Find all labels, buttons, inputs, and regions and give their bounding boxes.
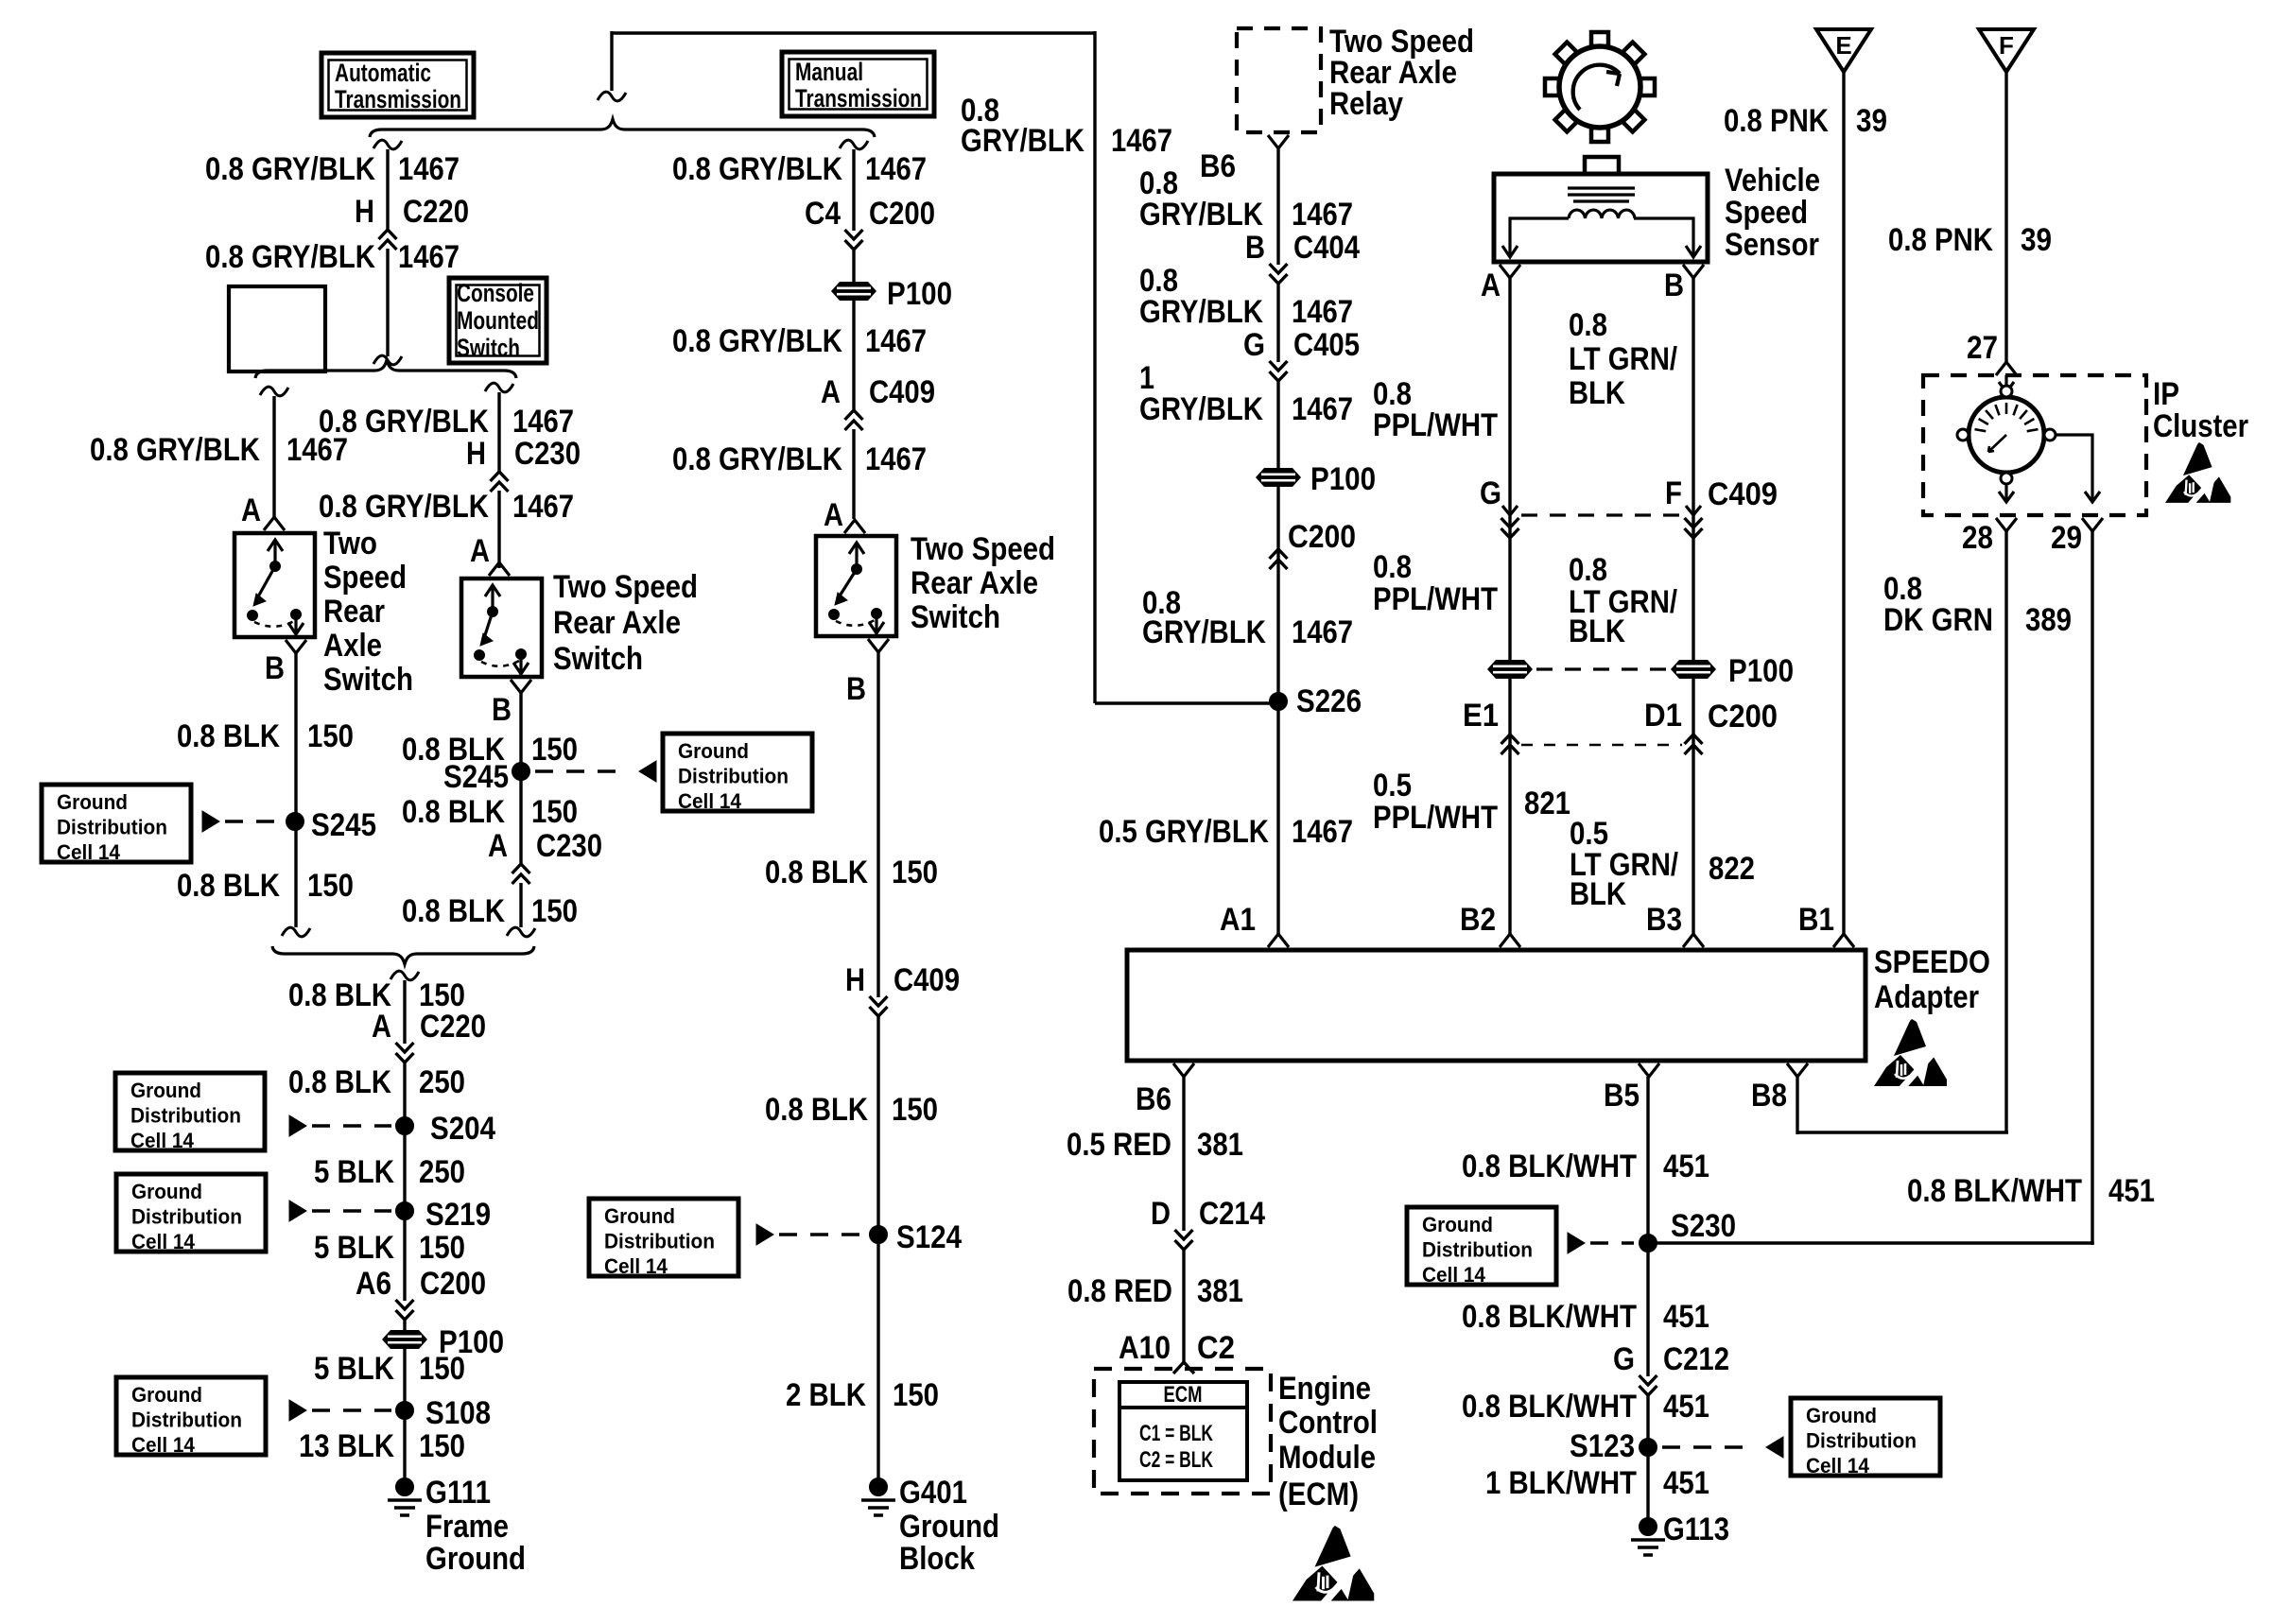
connector C214 pin D: [1151, 1196, 1265, 1250]
svg-text:Distribution: Distribution: [1806, 1429, 1917, 1453]
wire merged ground chain: [403, 980, 406, 1487]
svg-text:Ground: Ground: [131, 1383, 202, 1407]
svg-text:A: A: [488, 828, 508, 864]
connector C212 pin G: [1613, 1341, 1729, 1395]
svg-text:Console: Console: [457, 279, 534, 307]
wire from top rail into S226: [1095, 701, 1278, 704]
pin chevron into IP cluster 27: [1996, 362, 2017, 375]
svg-text:ECM: ECM: [1164, 1382, 1203, 1408]
svg-text:Cell 14: Cell 14: [1422, 1263, 1486, 1287]
label Two Speed Rear Axle Switch: [323, 526, 413, 698]
svg-text:C2: C2: [1197, 1330, 1235, 1366]
svg-text:451: 451: [1663, 1389, 1709, 1425]
ground G113: [1631, 1518, 1665, 1556]
svg-text:Distribution: Distribution: [130, 1104, 241, 1128]
svg-text:1467: 1467: [1292, 197, 1353, 233]
svg-text:G: G: [1480, 475, 1501, 511]
svg-text:Rear: Rear: [323, 594, 385, 630]
svg-text:13 BLK: 13 BLK: [299, 1428, 394, 1464]
svg-text:389: 389: [2025, 602, 2072, 638]
svg-text:150: 150: [531, 794, 578, 830]
svg-text:PPL/WHT: PPL/WHT: [1373, 581, 1498, 617]
svg-text:Speed: Speed: [323, 560, 407, 596]
pin chevron into speedo adapter A1: [1268, 934, 1289, 947]
ground distribution cell 14 box (S124) arrow: [756, 1224, 773, 1245]
connector C200 pin C4: [805, 196, 935, 250]
ground distribution cell 14 box (S204) dashed link: [312, 1124, 391, 1127]
ground distribution cell 14 box (S123): [1791, 1398, 1940, 1477]
svg-text:BLK: BLK: [1570, 876, 1626, 912]
splice S219: [396, 1202, 414, 1220]
label Two Speed Rear Axle Switch (console): [553, 569, 698, 677]
svg-text:Cell 14: Cell 14: [678, 789, 742, 813]
svg-text:Two Speed: Two Speed: [911, 531, 1055, 567]
svg-text:Control: Control: [1278, 1405, 1378, 1441]
svg-text:B6: B6: [1200, 148, 1236, 184]
svg-text:G: G: [1243, 327, 1265, 363]
svg-text:GRY/BLK: GRY/BLK: [961, 123, 1084, 159]
svg-text:F: F: [1665, 475, 1682, 511]
break squiggle bottom of switch1 wire: [282, 927, 310, 937]
svg-text:0.8 BLK: 0.8 BLK: [288, 1064, 391, 1100]
svg-text:S245: S245: [311, 807, 376, 843]
svg-text:Distribution: Distribution: [57, 816, 167, 839]
svg-text:LT GRN/: LT GRN/: [1569, 341, 1677, 377]
svg-text:1 BLK/WHT: 1 BLK/WHT: [1485, 1465, 1637, 1501]
svg-text:C220: C220: [420, 1009, 486, 1045]
svg-text:B2: B2: [1460, 902, 1496, 938]
svg-text:A: A: [824, 497, 843, 533]
wire label 0.8 PPL/WHT (below C409): [1373, 549, 1498, 617]
svg-text:C4: C4: [805, 196, 841, 232]
connector C220 pin H: [355, 194, 469, 250]
ground distribution cell 14 box (S230) arrow: [1568, 1233, 1585, 1253]
svg-text:C200: C200: [1708, 699, 1778, 734]
wire top rail left stub: [610, 31, 613, 91]
svg-text:1467: 1467: [512, 404, 574, 440]
svg-text:0.8 BLK: 0.8 BLK: [402, 893, 505, 929]
wire top rail right drop: [1093, 31, 1096, 703]
svg-text:H: H: [466, 436, 486, 472]
svg-text:E: E: [1835, 31, 1851, 60]
svg-text:G113: G113: [1663, 1512, 1729, 1547]
svg-text:B: B: [1664, 268, 1684, 303]
pass-through grommet P100 (relay wire): [1256, 468, 1301, 487]
ground distribution cell 14 box (right of console switch): [663, 734, 812, 813]
svg-text:250: 250: [419, 1064, 465, 1100]
connector C230 pin H: [466, 436, 581, 492]
wire top rail horizontal: [612, 31, 1095, 34]
svg-text:C230: C230: [536, 828, 602, 864]
brace joining switch alternatives: [255, 360, 516, 378]
component box Vehicle Speed Sensor: [1494, 174, 1708, 262]
svg-text:H: H: [355, 194, 374, 230]
svg-text:P100: P100: [1728, 653, 1794, 689]
ground distribution cell 14 box (S219) arrow: [289, 1201, 306, 1221]
connector C404 pin B: [1245, 230, 1360, 284]
splice S124: [870, 1226, 888, 1244]
svg-text:C200: C200: [1288, 519, 1356, 555]
svg-text:Vehicle: Vehicle: [1725, 163, 1820, 199]
svg-text:Automatic: Automatic: [335, 59, 431, 87]
two speed rear axle switch 3 (manual): [816, 536, 896, 636]
svg-text:Switch: Switch: [911, 599, 1000, 635]
label Two Speed Rear Axle Relay: [1329, 24, 1474, 122]
svg-text:B5: B5: [1604, 1078, 1640, 1114]
svg-text:Switch: Switch: [457, 334, 520, 362]
svg-text:A6: A6: [356, 1266, 391, 1302]
svg-text:B: B: [265, 650, 285, 686]
svg-text:0.5: 0.5: [1373, 768, 1412, 803]
pin chevron into switch 1: [264, 517, 285, 530]
svg-text:C404: C404: [1293, 230, 1360, 266]
dashed grommet P100 link: [1536, 667, 1667, 670]
wire manual transmission branch: [852, 149, 855, 519]
svg-text:Ground: Ground: [678, 739, 749, 763]
svg-text:0.8 GRY/BLK: 0.8 GRY/BLK: [672, 151, 842, 187]
svg-text:A: A: [241, 492, 261, 528]
svg-text:0.8: 0.8: [1569, 552, 1607, 588]
svg-text:S123: S123: [1570, 1428, 1635, 1464]
svg-text:Two Speed: Two Speed: [553, 569, 698, 605]
svg-text:Distribution: Distribution: [604, 1230, 715, 1253]
svg-text:Switch: Switch: [553, 641, 643, 677]
wire label 0.8 LT GRN/BLK (below C409): [1569, 552, 1677, 649]
splice S245 (console branch): [512, 763, 530, 781]
ground distribution cell 14 box (S204) arrow: [289, 1115, 306, 1136]
svg-text:Distribution: Distribution: [1422, 1238, 1533, 1262]
two speed rear axle switch 2 (console): [461, 579, 542, 677]
svg-text:0.8 BLK/WHT: 0.8 BLK/WHT: [1907, 1173, 2082, 1209]
ground distribution cell 14 box (right of console switch) arrow: [639, 761, 656, 782]
wire 28 horizontal to B8: [1797, 1131, 2008, 1133]
component box Automatic Transmission: [321, 53, 474, 117]
svg-text:150: 150: [419, 1428, 465, 1464]
svg-text:Engine: Engine: [1278, 1371, 1371, 1407]
svg-text:C409: C409: [1708, 476, 1778, 512]
break squiggle top of automatic wire: [373, 140, 402, 149]
svg-text:Mounted: Mounted: [457, 306, 539, 335]
svg-text:150: 150: [419, 1230, 465, 1266]
ground distribution cell 14 box (far left): [42, 785, 191, 864]
svg-text:822: 822: [1709, 851, 1755, 887]
break squiggle on top-rail stub: [598, 92, 626, 101]
svg-text:0.8: 0.8: [1569, 307, 1607, 343]
break squiggle bottom of console wire: [507, 927, 535, 937]
connector C220 pin A: [372, 1009, 486, 1063]
svg-text:821: 821: [1524, 786, 1570, 821]
svg-text:Axle: Axle: [323, 628, 382, 664]
svg-text:0.8 PNK: 0.8 PNK: [1888, 222, 1993, 258]
svg-text:0.8 BLK: 0.8 BLK: [177, 868, 280, 904]
svg-text:0.8 GRY/BLK: 0.8 GRY/BLK: [90, 432, 260, 468]
ground distribution cell 14 box (S108) arrow: [289, 1400, 306, 1421]
component box Manual Transmission: [782, 52, 934, 116]
break squiggle top of switch1 wire: [260, 387, 288, 396]
connector C200 (relay wire): [1270, 519, 1357, 569]
wire IP 29 down (BLK/WHT 451): [2091, 531, 2093, 1245]
svg-text:0.8 BLK: 0.8 BLK: [765, 855, 868, 890]
wire label 0.8 DK GRN: [1883, 571, 1993, 638]
ground distribution cell 14 box (S230) dashed link: [1590, 1241, 1634, 1244]
svg-text:Cell 14: Cell 14: [604, 1254, 668, 1278]
svg-text:0.8 BLK/WHT: 0.8 BLK/WHT: [1462, 1389, 1637, 1425]
vss pickup coil core: [1568, 188, 1635, 201]
svg-text:P100: P100: [1310, 461, 1376, 497]
pin chevron below vss pin B: [1683, 265, 1704, 278]
svg-text:Relay: Relay: [1329, 86, 1403, 122]
two speed rear axle switch 1: [234, 533, 315, 637]
wire F to IP cluster 27 (PNK 39): [2004, 72, 2007, 363]
label IP Cluster: [2153, 376, 2248, 444]
svg-text:1467: 1467: [1292, 391, 1353, 427]
svg-text:B8: B8: [1751, 1078, 1787, 1114]
wire speedo B6 to ECM A10 (RED 381): [1182, 1077, 1185, 1362]
wire label 0.8 GRY/BLK (below C404): [1139, 263, 1263, 330]
vss internal leads: [1502, 218, 1701, 257]
svg-text:G111: G111: [425, 1475, 491, 1511]
svg-text:Sensor: Sensor: [1725, 227, 1819, 263]
svg-text:G: G: [1613, 1341, 1635, 1377]
connector C200 pin A6: [356, 1266, 486, 1320]
svg-text:1467: 1467: [865, 151, 927, 187]
svg-text:250: 250: [419, 1154, 465, 1190]
wire speedo B5 to G113: [1646, 1077, 1649, 1527]
connector C200 pins E1 and D1: [1463, 698, 1778, 754]
wire console switch branch: [497, 392, 500, 568]
esd symbol (speedo adapter): [1874, 1019, 1947, 1090]
svg-text:B: B: [846, 671, 866, 707]
svg-text:B: B: [1245, 230, 1265, 266]
svg-text:1467: 1467: [398, 151, 460, 187]
label Two Speed Rear Axle Switch (manual): [911, 531, 1055, 635]
svg-text:Distribution: Distribution: [131, 1205, 242, 1229]
component box Engine Control Module (dashed): [1094, 1369, 1271, 1494]
wire switch2 pin B to splice S245: [519, 693, 522, 927]
splice S204: [396, 1117, 414, 1135]
svg-text:E1: E1: [1463, 698, 1499, 734]
svg-text:28: 28: [1962, 520, 1993, 556]
svg-text:Cell 14: Cell 14: [57, 840, 121, 864]
brace joining automatic/manual alternatives: [370, 119, 875, 137]
dashed connector C200 link: [1521, 744, 1682, 747]
svg-text:Block: Block: [899, 1541, 975, 1577]
break squiggle top of manual wire: [840, 140, 868, 149]
svg-text:27: 27: [1967, 330, 1998, 366]
wire label 0.5 PPL/WHT: [1373, 768, 1498, 836]
label G111 Frame Ground: [425, 1475, 526, 1577]
svg-text:Cell 14: Cell 14: [130, 1129, 195, 1152]
svg-text:0.8: 0.8: [1373, 549, 1412, 585]
svg-text:GRY/BLK: GRY/BLK: [1139, 294, 1263, 330]
svg-text:P100: P100: [887, 276, 952, 312]
label Automatic Transmission: [335, 59, 461, 113]
pin chevron below switch 3: [868, 639, 889, 652]
svg-text:GRY/BLK: GRY/BLK: [1139, 197, 1263, 233]
svg-text:B3: B3: [1646, 902, 1682, 938]
svg-text:1467: 1467: [1292, 294, 1353, 330]
ground distribution cell 14 box (S108): [116, 1377, 266, 1457]
svg-text:C214: C214: [1199, 1196, 1265, 1232]
label Engine Control Module (ECM): [1278, 1371, 1378, 1512]
svg-text:2 BLK: 2 BLK: [786, 1377, 866, 1413]
splice S230: [1640, 1235, 1657, 1253]
svg-text:D: D: [1151, 1196, 1171, 1232]
ground distribution cell 14 box (S123) arrow: [1766, 1437, 1783, 1458]
esd symbol (IP cluster): [2165, 442, 2230, 507]
svg-text:0.8 BLK: 0.8 BLK: [177, 718, 280, 754]
splice S226: [1270, 693, 1288, 711]
svg-text:A: A: [1481, 268, 1501, 303]
svg-text:Transmission: Transmission: [335, 85, 461, 113]
svg-text:0.5 GRY/BLK: 0.5 GRY/BLK: [1099, 814, 1269, 850]
svg-text:S245: S245: [443, 759, 509, 795]
svg-text:Distribution: Distribution: [678, 765, 789, 788]
svg-text:Ground: Ground: [1806, 1404, 1877, 1427]
svg-text:0.8 PNK: 0.8 PNK: [1724, 103, 1829, 139]
svg-text:1467: 1467: [865, 323, 927, 359]
wire label 0.8 GRY/BLK (above S226): [1142, 585, 1266, 650]
wire relay pin B6 down to speedo adapter A1: [1276, 148, 1279, 934]
svg-text:150: 150: [531, 893, 578, 929]
svg-text:Cell 14: Cell 14: [131, 1433, 196, 1457]
label SPEEDO Adapter: [1874, 944, 1990, 1015]
ground G401: [861, 1478, 895, 1516]
svg-text:Cell 14: Cell 14: [131, 1230, 196, 1253]
svg-text:0.8 RED: 0.8 RED: [1067, 1273, 1172, 1309]
label G401 Ground Block: [899, 1475, 999, 1577]
ground distribution cell 14 box (S219) dashed link: [312, 1209, 391, 1212]
connector C2 pin A10: [1119, 1330, 1235, 1373]
svg-text:S219: S219: [425, 1197, 491, 1233]
wire label 1 GRY/BLK: [1139, 360, 1263, 427]
brace merging switch grounds: [272, 946, 534, 964]
pin chevron into speedo adapter B2: [1500, 934, 1520, 947]
wire vss A to speedo B2 (PPL/WHT): [1508, 278, 1511, 934]
wire label 0.5 LT GRN/BLK: [1570, 816, 1678, 912]
break squiggle top of merged ground wire: [390, 971, 419, 980]
svg-text:S230: S230: [1671, 1208, 1736, 1244]
component box SPEEDO Adapter: [1127, 950, 1865, 1061]
svg-text:H: H: [845, 962, 865, 998]
label Vehicle Speed Sensor: [1725, 163, 1820, 263]
ground distribution cell 14 box (S123) dashed link: [1662, 1445, 1753, 1448]
svg-text:0.8 BLK: 0.8 BLK: [402, 794, 505, 830]
svg-text:381: 381: [1197, 1273, 1243, 1309]
pass-through grommet P100 (vss B wire): [1671, 660, 1716, 679]
pin chevron below speedo B8: [1787, 1063, 1808, 1077]
wire E to speedo B1 (PNK 39): [1842, 72, 1845, 934]
svg-text:Rear Axle: Rear Axle: [553, 605, 681, 641]
ECM inner box: [1119, 1382, 1247, 1480]
connector C409 pin A: [821, 374, 935, 430]
svg-text:S226: S226: [1296, 683, 1362, 719]
svg-text:D1: D1: [1644, 698, 1682, 734]
svg-text:C220: C220: [403, 194, 469, 230]
svg-text:1467: 1467: [512, 489, 574, 525]
off-page reference F: [1979, 29, 2034, 72]
svg-text:1467: 1467: [1292, 614, 1353, 650]
ground distribution cell 14 box (far left) arrow: [202, 811, 219, 832]
svg-text:PPL/WHT: PPL/WHT: [1373, 407, 1498, 443]
svg-text:Speed: Speed: [1725, 195, 1808, 231]
svg-text:1467: 1467: [1111, 123, 1172, 159]
svg-text:SPEEDO: SPEEDO: [1874, 944, 1990, 980]
svg-text:C230: C230: [514, 436, 581, 472]
wire switch1 pin B to splice S245: [294, 653, 297, 927]
svg-text:Module: Module: [1278, 1440, 1376, 1476]
svg-text:0.8 GRY/BLK: 0.8 GRY/BLK: [205, 239, 375, 275]
svg-text:C2 = BLK: C2 = BLK: [1139, 1447, 1213, 1473]
connector C409 pin H: [845, 962, 960, 1016]
svg-text:Adapter: Adapter: [1874, 979, 1979, 1015]
svg-text:BLK: BLK: [1569, 613, 1625, 649]
svg-text:150: 150: [419, 1351, 465, 1387]
connector C409 pins G and F: [1480, 475, 1778, 538]
pin chevron below speedo B5: [1639, 1063, 1659, 1077]
svg-text:DK GRN: DK GRN: [1883, 602, 1993, 638]
pin chevron below IP 29: [2082, 518, 2103, 531]
label Console Mounted Switch: [457, 279, 539, 362]
svg-text:PPL/WHT: PPL/WHT: [1373, 800, 1498, 836]
pin chevron below relay: [1268, 135, 1289, 148]
svg-text:0.8 BLK/WHT: 0.8 BLK/WHT: [1462, 1299, 1637, 1335]
pin chevron into speedo adapter B3: [1683, 934, 1704, 947]
svg-text:IP: IP: [2153, 376, 2179, 412]
svg-text:Ground: Ground: [131, 1180, 202, 1203]
splice S245 (left): [286, 813, 304, 831]
svg-text:Ground: Ground: [130, 1079, 201, 1102]
svg-text:Ground: Ground: [604, 1204, 675, 1228]
svg-text:39: 39: [2021, 222, 2052, 258]
splice S123: [1640, 1439, 1657, 1457]
ground distribution cell 14 box (S124) dashed link: [779, 1233, 864, 1235]
svg-text:Ground: Ground: [425, 1541, 526, 1577]
svg-text:S108: S108: [425, 1395, 491, 1431]
svg-text:1467: 1467: [865, 441, 927, 477]
pass-through grommet P100 (vss A wire): [1487, 660, 1533, 679]
svg-text:BLK: BLK: [1569, 375, 1625, 411]
svg-text:C409: C409: [894, 962, 960, 998]
svg-text:GRY/BLK: GRY/BLK: [1139, 391, 1263, 427]
pin chevron below vss pin A: [1500, 265, 1520, 278]
svg-text:C405: C405: [1293, 327, 1360, 363]
svg-text:451: 451: [1663, 1299, 1709, 1335]
connector C230 pin A: [488, 828, 602, 884]
reluctor wheel icon: [1545, 32, 1655, 142]
pass-through grommet P100 (manual chain): [831, 282, 876, 301]
svg-text:B6: B6: [1136, 1081, 1171, 1117]
svg-text:C409: C409: [869, 374, 935, 410]
label Manual Transmission: [795, 58, 922, 112]
svg-text:0.8 GRY/BLK: 0.8 GRY/BLK: [205, 151, 375, 187]
pin chevron into switch 3: [844, 520, 865, 533]
svg-text:Cell 14: Cell 14: [1806, 1454, 1870, 1477]
svg-text:Transmission: Transmission: [795, 84, 922, 112]
vehicle speed sensor boss: [1585, 157, 1619, 174]
ground distribution cell 14 box (S108) dashed link: [312, 1408, 391, 1411]
svg-text:5 BLK: 5 BLK: [314, 1154, 394, 1190]
svg-text:B: B: [492, 692, 512, 728]
svg-text:150: 150: [892, 855, 938, 890]
svg-text:(ECM): (ECM): [1278, 1477, 1359, 1512]
svg-text:0.8 BLK/WHT: 0.8 BLK/WHT: [1462, 1149, 1637, 1184]
svg-text:150: 150: [307, 868, 354, 904]
off-page reference E: [1816, 29, 1871, 72]
connector C405 pin G: [1243, 327, 1360, 381]
splice S108: [396, 1402, 414, 1420]
wire vss B to speedo B3 (LT GRN/BLK): [1692, 278, 1694, 934]
